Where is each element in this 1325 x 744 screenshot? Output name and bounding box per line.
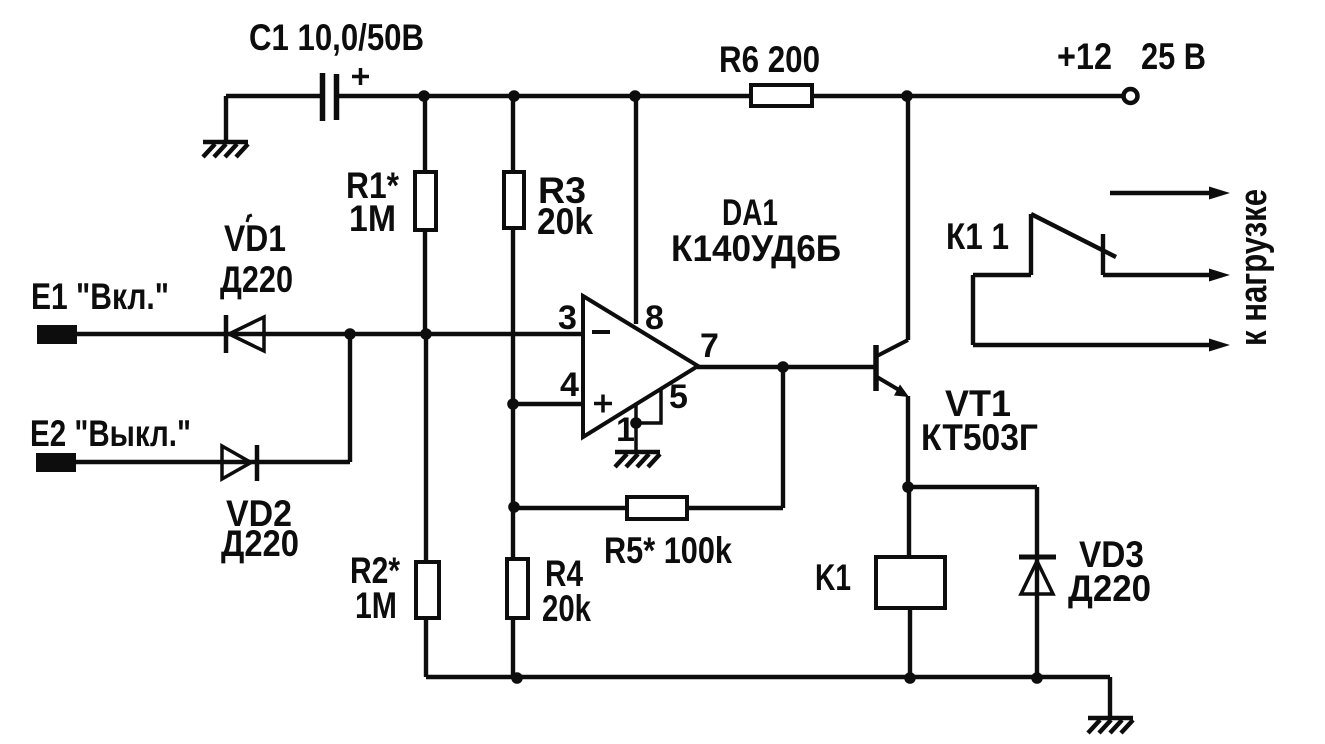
svg-text:7: 7 — [700, 327, 719, 365]
svg-text:5: 5 — [669, 378, 688, 416]
svg-text:8: 8 — [645, 299, 664, 337]
svg-text:20k: 20k — [537, 201, 593, 242]
svg-text:E1 "Вкл.": E1 "Вкл." — [31, 276, 169, 317]
svg-text:25 В: 25 В — [1141, 36, 1206, 77]
svg-text:3: 3 — [558, 299, 577, 337]
svg-text:к нагрузке: к нагрузке — [1233, 189, 1275, 346]
svg-text:К1 1: К1 1 — [946, 216, 1009, 257]
svg-text:1M: 1M — [355, 585, 397, 626]
svg-text:1M: 1M — [349, 198, 396, 239]
svg-text:E2 "Выкл.": E2 "Выкл." — [30, 413, 191, 454]
svg-text:4: 4 — [560, 366, 579, 404]
svg-text:VD1: VD1 — [224, 218, 286, 259]
svg-text:Д220: Д220 — [221, 523, 299, 564]
svg-text:К140УД6Б: К140УД6Б — [671, 228, 841, 269]
svg-text:Д220: Д220 — [1068, 568, 1151, 609]
svg-text:КТ503Г: КТ503Г — [921, 417, 1038, 458]
svg-text:1: 1 — [616, 411, 635, 449]
svg-text:Д220: Д220 — [220, 259, 293, 300]
svg-text:+12: +12 — [1057, 36, 1112, 77]
svg-text:20k: 20k — [542, 588, 591, 629]
svg-text:R6 200: R6 200 — [719, 39, 820, 80]
svg-text:K1: K1 — [815, 557, 851, 598]
svg-text:R5* 100k: R5* 100k — [604, 530, 732, 571]
svg-text:DA1: DA1 — [722, 192, 778, 233]
svg-text:C1 10,0/50В: C1 10,0/50В — [249, 17, 424, 58]
